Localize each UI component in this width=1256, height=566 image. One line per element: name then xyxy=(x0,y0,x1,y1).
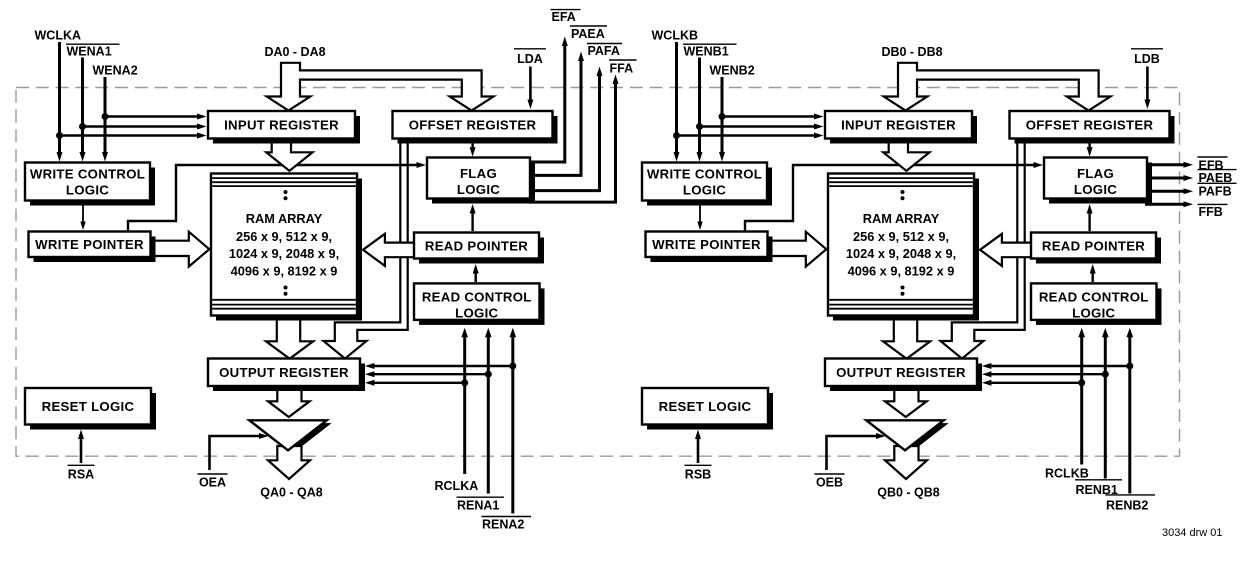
block READ POINTER (B) xyxy=(1031,233,1161,264)
wire READ POINTER to FLAG LOGIC (A) xyxy=(470,204,476,231)
wire LDA to OFFSET REGISTER xyxy=(527,67,533,110)
wire WCLKB to INPUT REGISTER xyxy=(677,133,824,139)
bus wire OFFSET REGISTER to OUTPUT REGISTER (B) xyxy=(941,140,1025,359)
flag label PAFB (active low) xyxy=(1198,183,1237,198)
wire FLAG LOGIC to FFB xyxy=(1145,201,1193,207)
block INPUT REGISTER (B) xyxy=(825,111,977,144)
svg-text:LDB: LDB xyxy=(1134,52,1160,66)
junction WENA2 / input-register line xyxy=(102,113,109,120)
bus arrow OUTPUT REGISTER to output buffer (A) xyxy=(268,388,310,417)
bus label DA0-DA8 xyxy=(264,45,325,59)
flag label PAEA (active low) xyxy=(570,26,607,41)
wire RSB to RESET LOGIC xyxy=(695,430,701,464)
svg-text:1024 x 9, 2048 x 9,: 1024 x 9, 2048 x 9, xyxy=(229,246,339,261)
wire FLAG LOGIC to EFB xyxy=(1145,162,1193,168)
pin label RENB1 (active low) xyxy=(1075,480,1122,497)
svg-text:LDA: LDA xyxy=(517,52,543,66)
output buffer (tri-state) A shadow xyxy=(254,423,331,453)
svg-text:FLAG: FLAG xyxy=(460,166,497,181)
svg-text:WENA1: WENA1 xyxy=(67,45,112,59)
wire OEA to output buffer xyxy=(210,433,269,470)
svg-text:WENB1: WENB1 xyxy=(684,45,729,59)
bus arrow WRITE POINTER to RAM ARRAY (A) xyxy=(152,232,209,267)
pin label RENA2 (active low) xyxy=(482,517,532,532)
wire FLAG LOGIC to PAFB xyxy=(1145,188,1193,194)
block FLAG LOGIC (B) xyxy=(1044,158,1152,204)
svg-text:RCLKA: RCLKA xyxy=(435,479,479,493)
pin label WENA2 xyxy=(93,64,138,78)
svg-text:INPUT REGISTER: INPUT REGISTER xyxy=(841,118,956,133)
bus arrow READ POINTER to RAM ARRAY (B) xyxy=(980,234,1032,266)
wire WCLKA vertical xyxy=(57,42,63,162)
pin label LDA (active low) xyxy=(514,49,546,66)
wire RENB1 to OUTPUT REGISTER xyxy=(982,371,1105,377)
svg-text:LOGIC: LOGIC xyxy=(455,305,498,320)
block READ POINTER (A) xyxy=(414,233,544,264)
bus arrow output buffer to QA0-QA8 xyxy=(268,446,310,479)
wire WRITE CONTROL LOGIC to WRITE POINTER (B) xyxy=(697,203,702,230)
flag label FFA (active low) xyxy=(609,60,637,76)
wire RENA1 to OUTPUT REGISTER xyxy=(365,371,488,377)
wire OFFSET REGISTER to FLAG LOGIC (A) xyxy=(470,141,476,157)
svg-text:LOGIC: LOGIC xyxy=(683,182,726,197)
svg-text:QB0 - QB8: QB0 - QB8 xyxy=(877,486,940,500)
drawing number 3034 drw 01 xyxy=(1162,527,1223,539)
pin label WENA1 (active low) xyxy=(66,44,120,58)
wire FLAG LOGIC to FFA xyxy=(528,75,619,203)
svg-text:RENA1: RENA1 xyxy=(457,499,499,513)
wire RENB2 to OUTPUT REGISTER xyxy=(982,363,1130,369)
svg-text:256 x 9, 512 x 9,: 256 x 9, 512 x 9, xyxy=(236,229,332,244)
flag label PAEB (active low) xyxy=(1198,170,1237,185)
bus label QA0-QA8 xyxy=(260,486,323,500)
svg-text:OEA: OEA xyxy=(199,476,226,490)
wire WENB2 vertical xyxy=(719,77,725,162)
flag label PAFA (active low) xyxy=(587,44,622,59)
svg-text:OEB: OEB xyxy=(816,476,843,490)
pin label RCLKB xyxy=(1045,467,1089,481)
block WRITE POINTER (A) xyxy=(29,232,156,263)
bus arrow INPUT REGISTER to RAM ARRAY (A) xyxy=(266,139,312,171)
wire WENA2 vertical xyxy=(102,77,108,162)
svg-text:RESET LOGIC: RESET LOGIC xyxy=(659,399,752,414)
wire RCLKB vertical xyxy=(1078,328,1085,465)
svg-text:WRITE CONTROL: WRITE CONTROL xyxy=(30,166,145,181)
wire WRITE POINTER to FLAG LOGIC (B) xyxy=(745,162,1043,233)
svg-text:OUTPUT REGISTER: OUTPUT REGISTER xyxy=(836,365,966,380)
chip boundary (dashed) xyxy=(16,88,1180,457)
wire READ CONTROL LOGIC to READ POINTER (A) xyxy=(473,264,479,282)
svg-text:READ CONTROL: READ CONTROL xyxy=(1039,289,1149,304)
svg-text:RENA2: RENA2 xyxy=(482,518,524,532)
bus arrow output buffer to QB0-QB8 xyxy=(885,446,927,479)
wire RENA2 to OUTPUT REGISTER xyxy=(365,363,513,369)
svg-text:256 x 9, 512 x 9,: 256 x 9, 512 x 9, xyxy=(853,229,949,244)
wire WRITE POINTER to FLAG LOGIC (A) xyxy=(128,162,426,233)
block READ CONTROL LOGIC (A) xyxy=(414,283,545,325)
wire RCLKA to OUTPUT REGISTER xyxy=(365,380,465,386)
flag label EFB (active low) xyxy=(1198,157,1228,173)
wire READ CONTROL LOGIC to READ POINTER (B) xyxy=(1090,264,1096,282)
wire WENB1 to INPUT REGISTER xyxy=(700,124,824,130)
svg-text:DA0 - DA8: DA0 - DA8 xyxy=(264,45,325,59)
wire RENB1 vertical xyxy=(1102,328,1109,479)
svg-text:4096 x 9, 8192 x 9: 4096 x 9, 8192 x 9 xyxy=(231,264,338,279)
junction WCLKB / input-register line xyxy=(673,132,680,139)
pin label RSB (active low) xyxy=(685,465,712,481)
wire WENB2 to INPUT REGISTER xyxy=(722,114,824,120)
wire WENA1 to INPUT REGISTER xyxy=(83,124,207,130)
pin label OEA (active low) xyxy=(198,474,228,490)
block OFFSET REGISTER (B) xyxy=(1010,111,1175,144)
svg-text:OFFSET REGISTER: OFFSET REGISTER xyxy=(1026,118,1154,133)
output buffer (tri-state) A xyxy=(249,420,326,450)
wire OEB to output buffer xyxy=(827,433,886,470)
bus arrow RAM ARRAY to OUTPUT REGISTER (B) xyxy=(883,314,930,359)
junction WENB1 / input-register line xyxy=(696,123,703,130)
bus label QB0-QB8 xyxy=(877,486,940,500)
svg-text:FFB: FFB xyxy=(1199,205,1223,219)
svg-text:3034 drw 01: 3034 drw 01 xyxy=(1162,527,1223,539)
block OUTPUT REGISTER (A) xyxy=(208,359,365,392)
svg-text:OUTPUT REGISTER: OUTPUT REGISTER xyxy=(219,365,349,380)
svg-text:RAM ARRAY: RAM ARRAY xyxy=(246,211,323,226)
wire RENA1 vertical xyxy=(485,328,492,494)
wire LDB to OFFSET REGISTER xyxy=(1144,67,1150,110)
wire WENB1 vertical xyxy=(697,58,703,162)
pin label WENB2 xyxy=(710,64,755,78)
block FLAG LOGIC (A) xyxy=(427,158,535,204)
junction RCLKA / output line xyxy=(461,379,468,386)
pin label OEB (active low) xyxy=(815,474,845,490)
junction RENA1 / output line xyxy=(485,371,492,378)
wire WENA1 vertical xyxy=(80,58,86,162)
wire WRITE CONTROL LOGIC to WRITE POINTER (A) xyxy=(80,203,85,230)
svg-text:RENB2: RENB2 xyxy=(1106,499,1148,513)
wire RENB2 vertical xyxy=(1127,328,1134,494)
svg-text:WCLKB: WCLKB xyxy=(652,29,699,43)
svg-text:PAFB: PAFB xyxy=(1199,185,1232,199)
svg-text:WENB2: WENB2 xyxy=(710,64,755,78)
svg-text:PAEA: PAEA xyxy=(571,27,605,41)
block INPUT REGISTER (A) xyxy=(208,111,360,144)
svg-text:LOGIC: LOGIC xyxy=(1072,305,1115,320)
block RESET LOGIC (A) xyxy=(25,388,156,430)
block WRITE CONTROL LOGIC (A) xyxy=(25,163,155,206)
bus arrow DA0-DA8 to INPUT/OFFSET REGISTER xyxy=(267,63,494,111)
pin label RENB2 (active low) xyxy=(1106,495,1156,513)
output buffer (tri-state) B shadow xyxy=(871,423,948,453)
wire OFFSET REGISTER to FLAG LOGIC (B) xyxy=(1087,141,1093,157)
pin label LDB (active low) xyxy=(1131,49,1163,66)
bus arrow WRITE POINTER to RAM ARRAY (B) xyxy=(769,232,826,267)
block RESET LOGIC (B) xyxy=(642,388,773,430)
svg-text:FFA: FFA xyxy=(610,62,634,76)
bus label DB0-DB8 xyxy=(881,45,942,59)
block OFFSET REGISTER (A) xyxy=(393,111,558,144)
bus arrow INPUT REGISTER to RAM ARRAY (B) xyxy=(883,139,929,171)
svg-text:EFA: EFA xyxy=(552,10,576,24)
bus arrow OUTPUT REGISTER to output buffer (B) xyxy=(885,388,927,417)
svg-text:INPUT REGISTER: INPUT REGISTER xyxy=(224,118,339,133)
flag label FFB (active low) xyxy=(1198,204,1228,219)
svg-text:RESET LOGIC: RESET LOGIC xyxy=(42,399,135,414)
svg-text:1024 x 9, 2048 x 9,: 1024 x 9, 2048 x 9, xyxy=(846,246,956,261)
svg-text:READ POINTER: READ POINTER xyxy=(425,238,528,253)
bus arrow DB0-DB8 to INPUT/OFFSET REGISTER xyxy=(884,63,1111,111)
wire READ POINTER to FLAG LOGIC (B) xyxy=(1087,204,1093,231)
svg-text:RCLKB: RCLKB xyxy=(1045,467,1089,481)
svg-text:LOGIC: LOGIC xyxy=(1074,182,1117,197)
junction RCLKB / output line xyxy=(1078,379,1085,386)
pin label WENB1 (active low) xyxy=(683,44,737,58)
wire FLAG LOGIC to PAEA xyxy=(528,52,584,176)
wire FLAG LOGIC to PAFA xyxy=(528,67,603,191)
junction WENA1 / input-register line xyxy=(79,123,86,130)
pin label RCLKA xyxy=(435,479,479,493)
pin label WCLKB xyxy=(652,29,699,43)
svg-text:OFFSET REGISTER: OFFSET REGISTER xyxy=(409,118,537,133)
svg-text:WRITE POINTER: WRITE POINTER xyxy=(35,237,144,252)
pin label RSA (active low) xyxy=(68,465,95,481)
svg-text:PAFA: PAFA xyxy=(588,44,620,58)
svg-text:WRITE POINTER: WRITE POINTER xyxy=(652,237,761,252)
svg-text:DB0 - DB8: DB0 - DB8 xyxy=(881,45,942,59)
block RAM ARRAY (B) xyxy=(828,174,979,321)
wire FLAG LOGIC to PAEB xyxy=(1145,175,1193,181)
svg-text:WENA2: WENA2 xyxy=(93,64,138,78)
svg-text:QA0 - QA8: QA0 - QA8 xyxy=(260,486,323,500)
svg-text:4096 x 9, 8192 x 9: 4096 x 9, 8192 x 9 xyxy=(848,264,955,279)
svg-text:LOGIC: LOGIC xyxy=(66,182,109,197)
svg-text:LOGIC: LOGIC xyxy=(457,182,500,197)
block WRITE POINTER (B) xyxy=(646,232,773,263)
output buffer (tri-state) B xyxy=(866,420,943,450)
wire WCLKB vertical xyxy=(674,42,680,162)
block READ CONTROL LOGIC (B) xyxy=(1031,283,1162,325)
junction RENA2 / output line xyxy=(509,363,516,370)
block WRITE CONTROL LOGIC (B) xyxy=(642,163,772,206)
wire WENA2 to INPUT REGISTER xyxy=(105,114,207,120)
bus arrow RAM ARRAY to OUTPUT REGISTER (A) xyxy=(266,314,313,359)
svg-text:FLAG: FLAG xyxy=(1077,166,1114,181)
wire FLAG LOGIC to EFA xyxy=(528,37,568,163)
flag label EFA (active low) xyxy=(551,10,581,24)
svg-text:WCLKA: WCLKA xyxy=(35,29,82,43)
block OUTPUT REGISTER (B) xyxy=(825,359,982,392)
wire RENA2 vertical xyxy=(510,328,517,514)
svg-text:READ CONTROL: READ CONTROL xyxy=(422,289,532,304)
junction WCLKA / input-register line xyxy=(56,132,63,139)
svg-text:READ POINTER: READ POINTER xyxy=(1042,238,1145,253)
bus wire OFFSET REGISTER to OUTPUT REGISTER (A) xyxy=(324,140,408,359)
svg-text:RSB: RSB xyxy=(685,468,711,482)
svg-text:WRITE CONTROL: WRITE CONTROL xyxy=(647,166,762,181)
junction WENB2 / input-register line xyxy=(719,113,726,120)
junction RENB1 / output line xyxy=(1102,371,1109,378)
svg-text:RSA: RSA xyxy=(68,468,94,482)
wire WCLKA to INPUT REGISTER xyxy=(60,133,207,139)
block RAM ARRAY (A) xyxy=(211,174,362,321)
bus arrow READ POINTER to RAM ARRAY (A) xyxy=(363,234,415,266)
svg-text:RAM ARRAY: RAM ARRAY xyxy=(863,211,940,226)
wire RCLKB to OUTPUT REGISTER xyxy=(982,380,1082,386)
wire RCLKA vertical xyxy=(461,328,468,474)
junction RENB2 / output line xyxy=(1126,363,1133,370)
pin label RENA1 (active low) xyxy=(457,497,505,512)
pin label WCLKA xyxy=(35,29,82,43)
wire RSA to RESET LOGIC xyxy=(78,430,84,464)
